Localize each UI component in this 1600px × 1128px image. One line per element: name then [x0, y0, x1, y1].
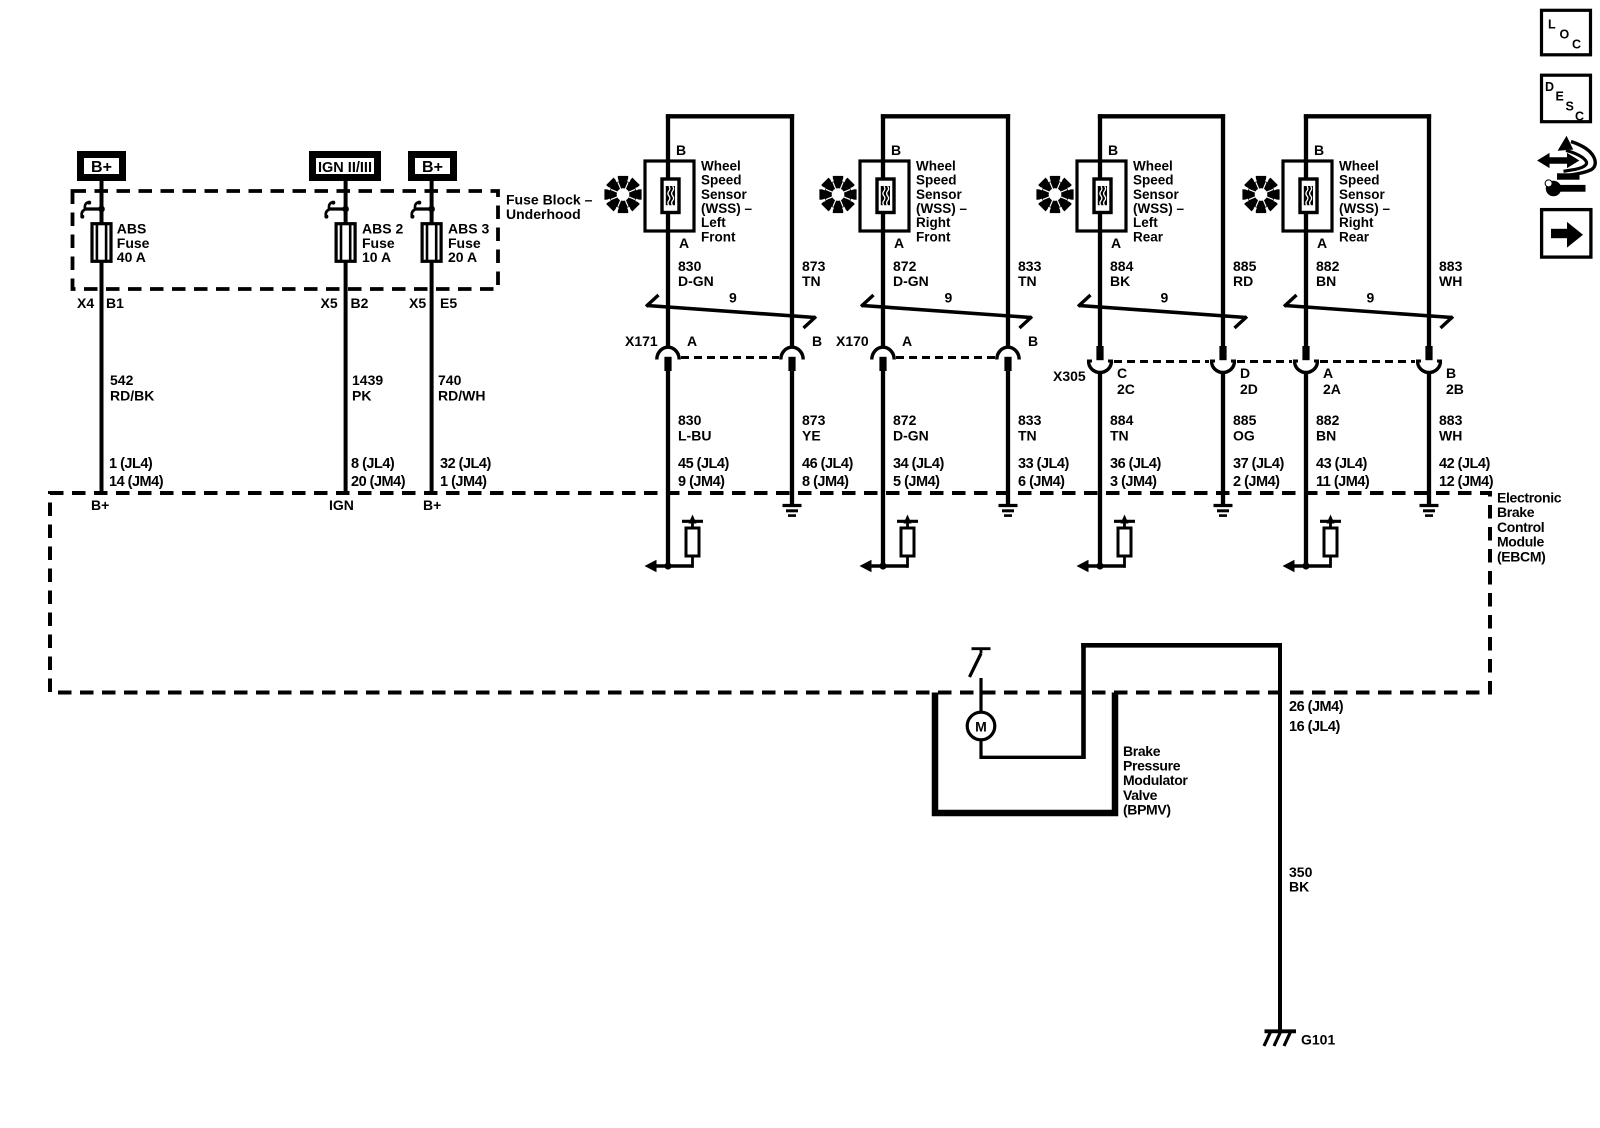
signal ground symbol inside EBCM (883): [1420, 506, 1439, 516]
signal ground symbol inside EBCM (885): [1214, 506, 1233, 516]
svg-text:9 (JM4): 9 (JM4): [678, 474, 725, 490]
EBCM pin label 33 (JL4) / 6 (JM4): [1018, 456, 1069, 490]
wire label 873 YE: [802, 412, 826, 444]
label Brake Pressure Modulator Valve (BPMV): [1123, 743, 1188, 817]
wire 872 D-GN from connector into EBCM: [881, 371, 885, 566]
svg-text:36 (JL4): 36 (JL4): [1110, 456, 1161, 472]
EBCM pin label 8 (JL4) / 20 (JM4): [351, 456, 406, 490]
svg-text:RD/WH: RD/WH: [438, 388, 485, 404]
wire A side (pin A) Right Rear: [1304, 114, 1308, 346]
EBCM internal node label B+: [91, 497, 109, 513]
svg-text:16 (JL4): 16 (JL4): [1289, 719, 1340, 735]
wire label 740 RD/WH: [438, 372, 485, 404]
svg-text:Electronic: Electronic: [1497, 490, 1562, 506]
svg-text:2D: 2D: [1240, 381, 1258, 397]
svg-text:L: L: [1548, 18, 1556, 32]
svg-text:C: C: [1575, 110, 1584, 124]
svg-text:Brake: Brake: [1123, 743, 1161, 759]
svg-text:L-BU: L-BU: [678, 428, 711, 444]
label fuse ABS 3 20 A: [448, 221, 489, 265]
svg-text:Wheel: Wheel: [1133, 158, 1173, 173]
svg-text:8 (JM4): 8 (JM4): [802, 474, 849, 490]
EBCM internal node label IGN: [329, 497, 354, 513]
EBCM pin label 46 (JL4) / 8 (JM4): [802, 456, 853, 490]
svg-text:B1: B1: [106, 295, 124, 311]
svg-text:Right: Right: [916, 215, 951, 230]
svg-text:D-GN: D-GN: [678, 273, 714, 289]
pin label A of WSS Left Front: [679, 235, 689, 251]
wheel speed sensor WSS Right Rear body: [1283, 161, 1332, 231]
pin label A of WSS Right Front: [894, 235, 904, 251]
component name label WSS Left Front: [701, 158, 752, 244]
wheel speed sensor WSS Left Front body: [645, 161, 694, 231]
svg-text:Rear: Rear: [1133, 229, 1164, 244]
pin label A of WSS Left Rear: [1111, 235, 1121, 251]
svg-text:9: 9: [729, 290, 737, 306]
svg-text:(WSS) –: (WSS) –: [916, 201, 967, 216]
svg-text:40 A: 40 A: [117, 249, 146, 265]
svg-text:WH: WH: [1439, 273, 1462, 289]
wire label 830 L-BU: [678, 412, 711, 444]
connector X305 terminal A (male pin above, female below): [1293, 346, 1319, 373]
svg-text:D: D: [1545, 80, 1554, 94]
svg-text:X170: X170: [836, 333, 869, 349]
svg-text:B: B: [812, 333, 822, 349]
svg-text:830: 830: [678, 258, 702, 274]
svg-text:A: A: [902, 333, 912, 349]
wire label 350 BK: [1289, 864, 1313, 895]
svg-text:Underhood: Underhood: [506, 206, 581, 222]
svg-text:11 (JM4): 11 (JM4): [1316, 474, 1370, 490]
svg-text:872: 872: [893, 258, 917, 274]
EBCM pin label 36 (JL4) / 3 (JM4): [1110, 456, 1161, 490]
svg-text:BN: BN: [1316, 428, 1336, 444]
wire 884 TN from connector into EBCM: [1098, 372, 1102, 566]
svg-text:Sensor: Sensor: [916, 187, 963, 202]
svg-text:9: 9: [1161, 290, 1169, 306]
svg-text:882: 882: [1316, 258, 1340, 274]
svg-text:Rear: Rear: [1339, 229, 1370, 244]
wire label 885 RD: [1233, 258, 1257, 289]
svg-text:Sensor: Sensor: [701, 187, 748, 202]
svg-text:884: 884: [1110, 258, 1134, 274]
connector pin labels X4 B1: [77, 295, 124, 311]
svg-text:A: A: [679, 235, 689, 251]
wire B side (pin B) Right Rear: [1427, 114, 1431, 346]
wire A side (pin A) Left Front: [666, 114, 670, 346]
Electronic Brake Control Module EBCM (dashed outline): [50, 493, 1490, 693]
wire label 882 BN: [1316, 258, 1340, 289]
svg-text:X5: X5: [321, 295, 338, 311]
svg-text:(WSS) –: (WSS) –: [1339, 201, 1390, 216]
icon LOC button: [1542, 10, 1591, 55]
svg-text:B+: B+: [422, 159, 443, 176]
EBCM pin label 32 (JL4) / 1 (JM4): [440, 456, 491, 490]
wire A side (pin A) Left Rear: [1098, 114, 1102, 346]
svg-text:G101: G101: [1301, 1032, 1335, 1048]
fuse block clip symbol at fuse ABS 3: [410, 201, 435, 219]
svg-text:O: O: [1560, 28, 1570, 42]
svg-text:Modulator: Modulator: [1123, 772, 1188, 788]
svg-text:42 (JL4): 42 (JL4): [1439, 456, 1490, 472]
svg-text:A: A: [894, 235, 904, 251]
terminal letter B of X170: [1028, 333, 1038, 349]
svg-text:5 (JM4): 5 (JM4): [893, 474, 940, 490]
pump motor switch (driver) inside EBCM: [970, 649, 991, 677]
wire label 872 D-GN: [893, 412, 929, 444]
svg-text:PK: PK: [352, 388, 371, 404]
svg-text:Module: Module: [1497, 534, 1544, 550]
EBCM pin label 1 (JL4) / 14 (JM4): [109, 456, 164, 490]
connector pin labels X5 B2: [321, 295, 369, 311]
connector X305 terminal C (male pin above, female below): [1087, 346, 1113, 373]
dashed connector body X171: [681, 356, 779, 359]
svg-text:883: 883: [1439, 412, 1463, 428]
component name label WSS Right Front: [916, 158, 967, 244]
svg-text:Brake: Brake: [1497, 504, 1535, 520]
EBCM pin label 43 (JL4) / 11 (JM4): [1316, 456, 1370, 490]
svg-text:2A: 2A: [1323, 381, 1341, 397]
svg-text:1 (JL4): 1 (JL4): [109, 456, 153, 472]
wheel speed sensor harness loop (top) Left Rear: [1098, 114, 1225, 118]
svg-text:883: 883: [1439, 258, 1463, 274]
svg-text:B: B: [1028, 333, 1038, 349]
svg-text:TN: TN: [1018, 428, 1037, 444]
svg-text:Sensor: Sensor: [1339, 187, 1386, 202]
svg-text:D: D: [1240, 365, 1250, 381]
svg-text:BK: BK: [1289, 879, 1309, 895]
wire from terminal through fuse ABS 3 down to EBCM: [430, 181, 434, 493]
signal ground symbol inside EBCM (833): [999, 506, 1018, 516]
wire 873 YE from connector to EBCM ground: [790, 371, 794, 506]
svg-text:10 A: 10 A: [362, 249, 391, 265]
svg-text:872: 872: [893, 412, 917, 428]
svg-text:1439: 1439: [352, 372, 383, 388]
bias network: left-arrow output and pull-up resistor inside EBCM (884): [1077, 515, 1136, 573]
wire 883 WH from connector to EBCM ground: [1427, 372, 1431, 506]
EBCM pin label 26 (JM4) / 16 (JL4): [1289, 699, 1344, 735]
svg-text:M: M: [975, 719, 987, 735]
pump motor M (BPMV): [967, 712, 995, 740]
pin label B of WSS Left Rear: [1108, 142, 1118, 158]
svg-text:X5: X5: [409, 295, 426, 311]
svg-text:Control: Control: [1497, 519, 1544, 535]
svg-text:Front: Front: [916, 229, 951, 244]
svg-text:885: 885: [1233, 412, 1257, 428]
svg-text:S: S: [1566, 100, 1574, 114]
fuse block - underhood (dashed outline): [73, 191, 499, 289]
svg-text:9: 9: [1367, 290, 1375, 306]
EBCM pin label 37 (JL4) / 2 (JM4): [1233, 456, 1284, 490]
svg-text:X305: X305: [1053, 368, 1086, 384]
connector X305 terminal D (male pin above, female below): [1210, 346, 1236, 373]
svg-text:Wheel: Wheel: [1339, 158, 1379, 173]
svg-text:9: 9: [945, 290, 953, 306]
svg-text:2B: 2B: [1446, 381, 1464, 397]
connector X171 terminal A (female above, male pin below): [657, 347, 679, 371]
wire B side (pin B) Left Rear: [1221, 114, 1225, 346]
bias network: left-arrow output and pull-up resistor inside EBCM (830): [645, 515, 704, 573]
svg-text:A: A: [1323, 365, 1333, 381]
wire label 833 TN: [1018, 412, 1042, 444]
svg-text:B: B: [1314, 142, 1324, 158]
svg-text:D-GN: D-GN: [893, 428, 929, 444]
svg-text:(WSS) –: (WSS) –: [701, 201, 752, 216]
label Electronic Brake Control Module (EBCM): [1497, 490, 1562, 565]
svg-text:TN: TN: [1110, 428, 1129, 444]
svg-text:14 (JM4): 14 (JM4): [109, 474, 164, 490]
Brake Pressure Modulator Valve BPMV (partial solid outline): [935, 693, 1115, 814]
gear icon (wheel) Left Rear: [1036, 176, 1073, 213]
pin label B of WSS Right Rear: [1314, 142, 1324, 158]
icon DESC button: [1542, 75, 1591, 123]
pin label B of WSS Left Front: [676, 142, 686, 158]
svg-text:1 (JM4): 1 (JM4): [440, 474, 487, 490]
bias network: left-arrow output and pull-up resistor inside EBCM (882): [1283, 515, 1342, 573]
svg-text:873: 873: [802, 412, 826, 428]
wire 350 BK down to G101: [1278, 643, 1282, 1031]
svg-text:882: 882: [1316, 412, 1340, 428]
dashed connector body X305 segment: [1114, 360, 1209, 363]
svg-text:2C: 2C: [1117, 381, 1135, 397]
svg-text:12 (JM4): 12 (JM4): [1439, 474, 1494, 490]
connector X170 terminal A (female above, male pin below): [872, 347, 894, 371]
component name label WSS Left Rear: [1133, 158, 1184, 244]
gear icon (wheel) Right Front: [819, 176, 856, 213]
svg-text:RD: RD: [1233, 273, 1253, 289]
svg-text:C: C: [1572, 38, 1581, 52]
EBCM pin label 45 (JL4) / 9 (JM4): [678, 456, 729, 490]
wire from terminal through fuse ABS down to EBCM: [100, 181, 104, 493]
terminal letters D 2D of X305: [1240, 365, 1258, 397]
svg-text:C: C: [1117, 365, 1127, 381]
svg-text:740: 740: [438, 372, 462, 388]
wheel speed sensor WSS Left Rear body: [1077, 161, 1126, 231]
power terminal IGN II/III: [313, 155, 378, 178]
wire from motor through EBCM to ground feed: [981, 643, 1280, 759]
svg-text:B+: B+: [91, 159, 112, 176]
wire 830 L-BU from connector into EBCM: [666, 371, 670, 566]
svg-text:884: 884: [1110, 412, 1134, 428]
svg-text:26 (JM4): 26 (JM4): [1289, 699, 1344, 715]
svg-text:B+: B+: [423, 497, 441, 513]
wire label 1439 PK: [352, 372, 383, 404]
wire A side (pin A) Right Front: [881, 114, 885, 346]
wire label 833 TN: [1018, 258, 1042, 289]
dashed connector body X305 segment: [1320, 360, 1415, 363]
terminal letter B of X171: [812, 333, 822, 349]
fuse ABS 2 10 A: [336, 224, 355, 262]
wire label 883 WH: [1439, 412, 1463, 444]
svg-text:46 (JL4): 46 (JL4): [802, 456, 853, 472]
svg-text:32 (JL4): 32 (JL4): [440, 456, 491, 472]
svg-text:Left: Left: [701, 215, 726, 230]
bias network: left-arrow output and pull-up resistor inside EBCM (872): [860, 515, 919, 573]
terminal letter A of X170: [902, 333, 912, 349]
svg-text:E5: E5: [440, 295, 457, 311]
svg-text:X4: X4: [77, 295, 94, 311]
svg-text:RD/BK: RD/BK: [110, 388, 154, 404]
svg-text:8 (JL4): 8 (JL4): [351, 456, 395, 472]
svg-text:TN: TN: [802, 273, 821, 289]
fuse block clip symbol at fuse ABS: [80, 201, 104, 219]
svg-text:X171: X171: [625, 333, 658, 349]
svg-text:Speed: Speed: [916, 173, 957, 188]
svg-text:833: 833: [1018, 258, 1042, 274]
svg-text:A: A: [687, 333, 697, 349]
svg-text:3 (JM4): 3 (JM4): [1110, 474, 1157, 490]
power terminal B+ (feeds ABS 3 fuse): [412, 155, 454, 178]
svg-text:A: A: [1111, 235, 1121, 251]
label G101: [1301, 1032, 1335, 1048]
connector X171 terminal B (female above, male pin below): [781, 347, 803, 371]
wire label 884 BK: [1110, 258, 1134, 289]
svg-text:20 A: 20 A: [448, 249, 477, 265]
svg-text:TN: TN: [1018, 273, 1037, 289]
gear icon (wheel) Right Rear: [1242, 176, 1279, 213]
svg-text:B: B: [676, 142, 686, 158]
wire label 542 RD/BK: [110, 372, 154, 404]
terminal letter A of X171: [687, 333, 697, 349]
wire from terminal through fuse ABS 2 down to EBCM: [344, 181, 348, 493]
wire B side (pin B) Right Front: [1006, 114, 1010, 346]
wheel speed sensor harness loop (top) Right Rear: [1304, 114, 1431, 118]
svg-text:45 (JL4): 45 (JL4): [678, 456, 729, 472]
svg-text:B+: B+: [91, 497, 109, 513]
svg-text:WH: WH: [1439, 428, 1462, 444]
label fuse ABS 2 10 A: [362, 221, 403, 265]
fuse ABS 40 A: [92, 224, 111, 262]
twisted-pair symbol (9 twists) Left Front: [646, 290, 816, 329]
EBCM pin label 34 (JL4) / 5 (JM4): [893, 456, 944, 490]
svg-text:830: 830: [678, 412, 702, 428]
svg-text:D-GN: D-GN: [893, 273, 929, 289]
fuse ABS 3 20 A: [422, 224, 441, 262]
dashed connector body X305 segment (D to A): [1237, 360, 1292, 363]
svg-text:BN: BN: [1316, 273, 1336, 289]
wheel speed sensor harness loop (top) Right Front: [881, 114, 1010, 118]
connector X305 terminal B (male pin above, female below): [1416, 346, 1442, 373]
twisted-pair symbol (9 twists) Right Front: [861, 290, 1032, 329]
chassis ground G101: [1264, 1031, 1296, 1046]
svg-text:542: 542: [110, 372, 134, 388]
component name label WSS Right Rear: [1339, 158, 1390, 244]
wire label 885 OG: [1233, 412, 1257, 444]
svg-text:Valve: Valve: [1123, 787, 1158, 803]
dashed connector body X170: [896, 356, 995, 359]
connector pin labels X5 E5: [409, 295, 457, 311]
signal ground symbol inside EBCM (873): [783, 506, 802, 516]
connector X170 terminal B (female above, male pin below): [997, 347, 1019, 371]
svg-text:34 (JL4): 34 (JL4): [893, 456, 944, 472]
svg-text:E: E: [1556, 90, 1564, 104]
svg-text:Wheel: Wheel: [916, 158, 956, 173]
wire 833 TN from connector to EBCM ground: [1006, 371, 1010, 506]
connector X305 label: [1053, 368, 1086, 384]
wire label 830 D-GN: [678, 258, 714, 289]
svg-text:2 (JM4): 2 (JM4): [1233, 474, 1280, 490]
svg-text:Speed: Speed: [1339, 173, 1380, 188]
wire 882 BN from connector into EBCM: [1304, 372, 1308, 566]
wire label 872 D-GN: [893, 258, 929, 289]
EBCM pin label 42 (JL4) / 12 (JM4): [1439, 456, 1494, 490]
svg-text:Front: Front: [701, 229, 736, 244]
svg-text:BK: BK: [1110, 273, 1130, 289]
svg-text:IGN: IGN: [329, 497, 354, 513]
wire label 873 TN: [802, 258, 826, 289]
connector X170 label: [836, 333, 869, 349]
wire label 884 TN: [1110, 412, 1134, 444]
svg-text:(EBCM): (EBCM): [1497, 548, 1545, 564]
power terminal B+ (feeds ABS fuse): [81, 155, 123, 178]
svg-text:YE: YE: [802, 428, 821, 444]
svg-text:B2: B2: [351, 295, 369, 311]
svg-text:B: B: [891, 142, 901, 158]
svg-text:B: B: [1446, 365, 1456, 381]
svg-text:20 (JM4): 20 (JM4): [351, 474, 406, 490]
svg-text:885: 885: [1233, 258, 1257, 274]
svg-text:Speed: Speed: [1133, 173, 1174, 188]
svg-text:Right: Right: [1339, 215, 1374, 230]
wire 885 OG from connector to EBCM ground: [1221, 372, 1225, 506]
terminal letters B 2B of X305: [1446, 365, 1464, 397]
svg-text:IGN II/III: IGN II/III: [318, 160, 372, 176]
svg-text:33 (JL4): 33 (JL4): [1018, 456, 1069, 472]
wire label 882 BN: [1316, 412, 1340, 444]
label fuse ABS 40 A: [117, 221, 150, 265]
terminal letters C 2C of X305: [1117, 365, 1135, 397]
pin label B of WSS Right Front: [891, 142, 901, 158]
svg-text:(BPMV): (BPMV): [1123, 801, 1171, 817]
svg-text:B: B: [1108, 142, 1118, 158]
wire from switch to BPMV pump motor: [979, 678, 982, 713]
svg-text:Speed: Speed: [701, 173, 742, 188]
icon vehicle/wrench (full size view): [1538, 137, 1595, 196]
terminal letters A 2A of X305: [1323, 365, 1341, 397]
svg-text:37 (JL4): 37 (JL4): [1233, 456, 1284, 472]
wire B side (pin B) Left Front: [790, 114, 794, 346]
svg-text:43 (JL4): 43 (JL4): [1316, 456, 1367, 472]
fuse block clip symbol at fuse ABS 2: [324, 201, 349, 219]
svg-text:Pressure: Pressure: [1123, 758, 1181, 774]
svg-text:OG: OG: [1233, 428, 1255, 444]
svg-text:873: 873: [802, 258, 826, 274]
icon forward arrow button: [1542, 210, 1591, 258]
wire label 883 WH: [1439, 258, 1463, 289]
svg-text:833: 833: [1018, 412, 1042, 428]
svg-text:Left: Left: [1133, 215, 1158, 230]
twisted-pair symbol (9 twists) Right Rear: [1284, 290, 1453, 329]
gear icon (wheel) Left Front: [604, 176, 641, 213]
svg-text:Wheel: Wheel: [701, 158, 741, 173]
pin label A of WSS Right Rear: [1317, 235, 1327, 251]
twisted-pair symbol (9 twists) Left Rear: [1078, 290, 1247, 329]
svg-text:(WSS) –: (WSS) –: [1133, 201, 1184, 216]
wheel speed sensor WSS Right Front body: [860, 161, 909, 231]
label Fuse Block - Underhood: [506, 192, 593, 223]
svg-text:6 (JM4): 6 (JM4): [1018, 474, 1065, 490]
svg-text:A: A: [1317, 235, 1327, 251]
svg-text:Sensor: Sensor: [1133, 187, 1180, 202]
EBCM internal node label B+: [423, 497, 441, 513]
connector X171 label: [625, 333, 658, 349]
wheel speed sensor harness loop (top) Left Front: [666, 114, 794, 118]
